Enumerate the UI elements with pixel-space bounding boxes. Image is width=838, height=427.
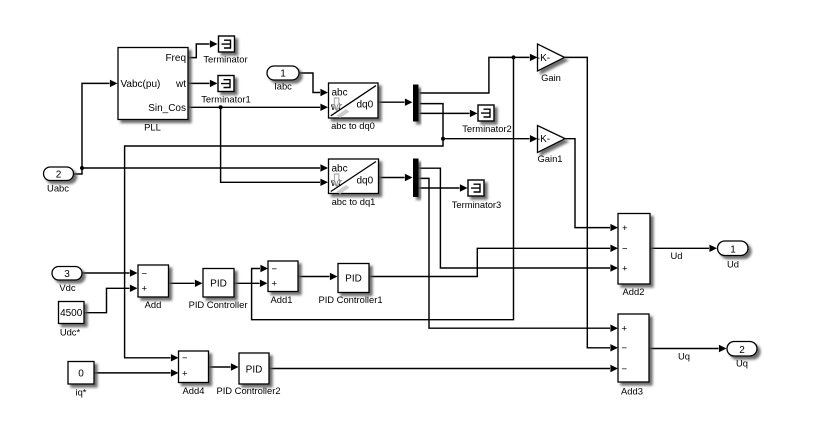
constant 4500 (Udc*) xyxy=(59,302,85,338)
arrow into Add2 in2 xyxy=(610,245,618,252)
arrow into Add1 in2 xyxy=(260,280,268,287)
wire Iabc port to abc-to-dq0 abc input xyxy=(299,73,320,93)
svg-text:Add4: Add4 xyxy=(183,385,205,396)
svg-text:PID Controller: PID Controller xyxy=(189,299,248,310)
node Sin_Cos branch xyxy=(219,105,223,109)
svg-text:PID: PID xyxy=(345,274,362,285)
svg-text:Terminator2: Terminator2 xyxy=(462,123,512,134)
wire Udc* constant to Add in2 xyxy=(84,288,130,312)
svg-text:wt: wt xyxy=(175,79,186,90)
wire PLL wt to Terminator1 xyxy=(188,82,210,84)
arrow into PID Controller1 xyxy=(330,273,338,280)
wire Add2 output to Ud port xyxy=(650,247,709,249)
svg-text:−: − xyxy=(142,268,148,279)
arrow into Add3 in3 xyxy=(610,365,618,372)
wire PLL Freq to Terminator xyxy=(188,44,210,58)
svg-text:iq*: iq* xyxy=(76,387,87,398)
Gain xyxy=(537,44,565,83)
svg-text:abc: abc xyxy=(332,164,348,175)
port Uabc (inport 2) xyxy=(44,167,74,194)
svg-text:Vdc: Vdc xyxy=(59,282,75,293)
svg-text:Ud: Ud xyxy=(727,259,739,270)
PID Controller xyxy=(189,269,248,311)
block abc to dq0 xyxy=(329,83,379,131)
wire Gain output to Add3 in2 xyxy=(565,57,611,347)
svg-text:−: − xyxy=(182,353,188,364)
node Gain-input branch xyxy=(512,55,516,59)
svg-text:-K-: -K- xyxy=(537,53,550,64)
Add1 block xyxy=(268,261,298,305)
node Gain1-input branch xyxy=(441,137,445,141)
arrow into Gain1 xyxy=(530,135,538,142)
wire PLL Sin_Cos to abc-to-dq0 wt input xyxy=(188,106,320,108)
svg-text:Terminator3: Terminator3 xyxy=(452,199,502,210)
svg-text:Uq: Uq xyxy=(678,351,690,362)
wire Add output to PID Controller xyxy=(169,282,195,284)
Terminator2 xyxy=(462,105,512,134)
svg-text:2: 2 xyxy=(56,170,62,181)
wire iq* constant to Add4 in2 xyxy=(94,372,171,374)
arrow into abc-to-dq0 wt xyxy=(320,104,328,111)
svg-text:−: − xyxy=(622,364,628,375)
arrow into PID Controller xyxy=(195,280,203,287)
Add block xyxy=(138,265,169,310)
svg-text:2: 2 xyxy=(739,345,745,356)
arrow into Add2 in1 xyxy=(610,224,618,231)
block abc to dq1 xyxy=(329,159,379,207)
svg-text:+: + xyxy=(622,263,628,274)
arrow into Ud port xyxy=(709,245,717,252)
svg-text:+: + xyxy=(622,223,628,234)
svg-text:dq0: dq0 xyxy=(357,100,374,111)
wire Gain1 output to Add2 in1 xyxy=(565,139,610,228)
port Uq (outport 2) xyxy=(727,342,757,369)
wire PID Controller1 output to Add2 in2 xyxy=(369,248,610,276)
svg-text:PID Controller1: PID Controller1 xyxy=(318,294,382,305)
arrow into abc-to-dq1 abc xyxy=(320,164,328,171)
arrow into Add3 in1 xyxy=(610,325,618,332)
Add2 block xyxy=(618,214,650,298)
demux1 (mux bar) xyxy=(413,85,419,122)
svg-text:−: − xyxy=(622,343,628,354)
arrow into abc-to-dq1 wt xyxy=(320,179,328,186)
arrow into Add in1 xyxy=(130,269,138,276)
wire Sin_Cos branch down to abc-to-dq1 wt input xyxy=(221,107,320,182)
arrow into Terminator1 xyxy=(210,80,218,87)
svg-text:+: + xyxy=(622,324,628,335)
svg-text:+: + xyxy=(272,279,278,290)
JUNCTION DOTS xyxy=(80,55,516,170)
wire demux2 out3 to Terminator3 xyxy=(419,187,460,189)
arrow into abc-to-dq0 abc xyxy=(320,89,328,96)
svg-text:Ud: Ud xyxy=(671,250,683,261)
svg-text:Freq: Freq xyxy=(165,53,186,64)
svg-text:Udc*: Udc* xyxy=(60,327,81,338)
svg-text:1: 1 xyxy=(280,69,286,80)
wire PID Controller2 output to Add3 in3 xyxy=(269,368,610,370)
PLL block xyxy=(118,48,188,133)
arrow into demux2 xyxy=(405,174,413,181)
port Vdc (inport 3) xyxy=(52,267,82,294)
svg-text:PID: PID xyxy=(246,365,263,376)
arrow into PLL xyxy=(110,80,118,87)
arrow into Add1 in1 xyxy=(260,265,268,272)
svg-text:-K-: -K- xyxy=(537,134,550,145)
Terminator3 xyxy=(452,180,502,210)
demux2 (mux bar) xyxy=(413,159,419,198)
svg-text:−: − xyxy=(272,264,278,275)
svg-text:abc to dq1: abc to dq1 xyxy=(332,196,376,207)
svg-text:abc: abc xyxy=(332,88,348,99)
arrow into Add2 in3 xyxy=(610,264,618,271)
arrow into Terminator2 xyxy=(470,110,478,117)
wire demux1 out1 to Gain input xyxy=(420,57,530,93)
wire abc-to-dq1 output to demux2 xyxy=(379,177,405,179)
svg-text:Terminator: Terminator xyxy=(203,54,247,65)
svg-text:PID: PID xyxy=(210,278,227,289)
wire Add4 output to PID Controller2 xyxy=(209,366,231,368)
Terminator1 xyxy=(201,76,251,105)
svg-text:−: − xyxy=(622,244,628,255)
wire junction to Gain1 input xyxy=(443,138,530,140)
wire demux1 out2 feedback to Add4 in1 xyxy=(125,104,443,358)
Add4 block xyxy=(179,351,209,396)
port Iabc (inport 1) xyxy=(267,66,299,92)
svg-text:dq0: dq0 xyxy=(357,176,374,187)
wire demux2 out1 to Add2 in3 xyxy=(419,168,611,268)
svg-text:Gain: Gain xyxy=(541,72,561,83)
svg-text:abc to dq0: abc to dq0 xyxy=(331,120,375,131)
svg-text:3: 3 xyxy=(64,269,70,280)
svg-text:Add1: Add1 xyxy=(271,294,293,305)
wire Gain-input branch down-left-up to Add1 in1 xyxy=(252,57,514,319)
node Uabc branch xyxy=(80,166,84,170)
constant 0 (iq*) xyxy=(68,362,94,398)
arrow into demux1 xyxy=(405,99,413,106)
svg-text:Add: Add xyxy=(145,299,162,310)
arrow into Add in2 xyxy=(130,285,138,292)
ARROWHEADS xyxy=(110,40,727,376)
wire Uabc port to PLL input (up x=82) xyxy=(73,83,110,174)
arrow into Terminator xyxy=(210,40,218,47)
arrow into PID Controller2 xyxy=(231,363,239,370)
svg-text:PID Controller2: PID Controller2 xyxy=(216,385,280,396)
svg-text:1: 1 xyxy=(730,244,736,255)
port Ud (outport 1) xyxy=(718,241,749,270)
Terminator xyxy=(203,36,247,65)
Gain1 xyxy=(537,126,565,165)
arrow into Uq port xyxy=(719,345,727,352)
svg-text:+: + xyxy=(142,284,148,295)
wire demux1 out3 to Terminator2 xyxy=(420,112,470,114)
wire Vdc port to Add in1 xyxy=(81,272,130,274)
svg-text:+: + xyxy=(182,368,188,379)
svg-text:4500: 4500 xyxy=(60,308,83,319)
wire demux2 out2 to Add3 in1 xyxy=(419,178,611,328)
svg-text:0: 0 xyxy=(78,369,84,380)
arrow into Terminator3 xyxy=(460,184,468,191)
wire abc-to-dq0 output to demux1 xyxy=(378,101,405,103)
PID Controller2 xyxy=(216,353,280,396)
wire Add3 output to Uq port xyxy=(649,348,719,350)
PID Controller1 xyxy=(318,264,382,306)
svg-text:Add2: Add2 xyxy=(623,286,645,297)
svg-text:PLL: PLL xyxy=(144,122,161,133)
Add3 block xyxy=(618,314,649,397)
svg-text:Uabc: Uabc xyxy=(47,183,69,194)
svg-text:Iabc: Iabc xyxy=(274,81,292,92)
wire PID Controller output to Add1 in2 xyxy=(234,282,260,284)
arrow into Add4 in1 xyxy=(171,354,179,361)
svg-text:Uq: Uq xyxy=(736,358,748,369)
wire Uabc to abc-to-dq1 abc input xyxy=(82,167,320,169)
svg-text:Sin_Cos: Sin_Cos xyxy=(148,103,186,114)
svg-text:Terminator1: Terminator1 xyxy=(201,94,251,105)
wire Add1 output to PID Controller1 xyxy=(298,276,330,278)
svg-text:Gain1: Gain1 xyxy=(537,153,562,164)
svg-text:Vabc(pu): Vabc(pu) xyxy=(121,79,161,90)
arrow into Gain xyxy=(530,54,538,61)
arrow into Add3 in2 xyxy=(610,344,618,351)
svg-text:Add3: Add3 xyxy=(621,386,643,397)
arrow into Add4 in2 xyxy=(171,369,179,376)
